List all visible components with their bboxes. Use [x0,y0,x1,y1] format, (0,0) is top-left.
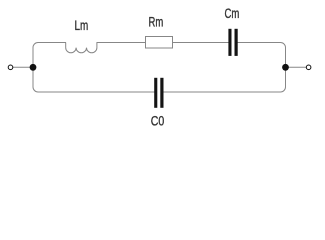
svg-text:C0: C0 [151,114,165,129]
node: left junction dot [30,64,37,71]
capacitor Cm (left plate) [228,29,231,56]
wire: left terminal lead [11,66,33,68]
node: right junction dot [282,64,289,71]
terminal: right port circle [306,65,311,70]
capacitor Cm (right plate) [235,29,238,56]
terminal: left port circle [8,65,13,70]
wire: right terminal lead [286,66,309,68]
capacitor C0 (right plate) [160,78,163,108]
svg-text:Cm: Cm [225,6,240,21]
wire gap cover for capacitor C0 [155,89,163,96]
svg-text:Lm: Lm [75,18,89,33]
wire gap cover for inductor segment [66,40,97,45]
capacitor C0 (left plate) [154,78,157,108]
wire: outer loop (top rail, bottom rail, left and right verticals, rounded corners) [33,43,286,93]
wire gap cover for capacitor Cm [229,39,237,46]
resistor Rm [146,37,173,49]
inductor Lm [66,43,97,53]
svg-text:Rm: Rm [149,14,164,29]
